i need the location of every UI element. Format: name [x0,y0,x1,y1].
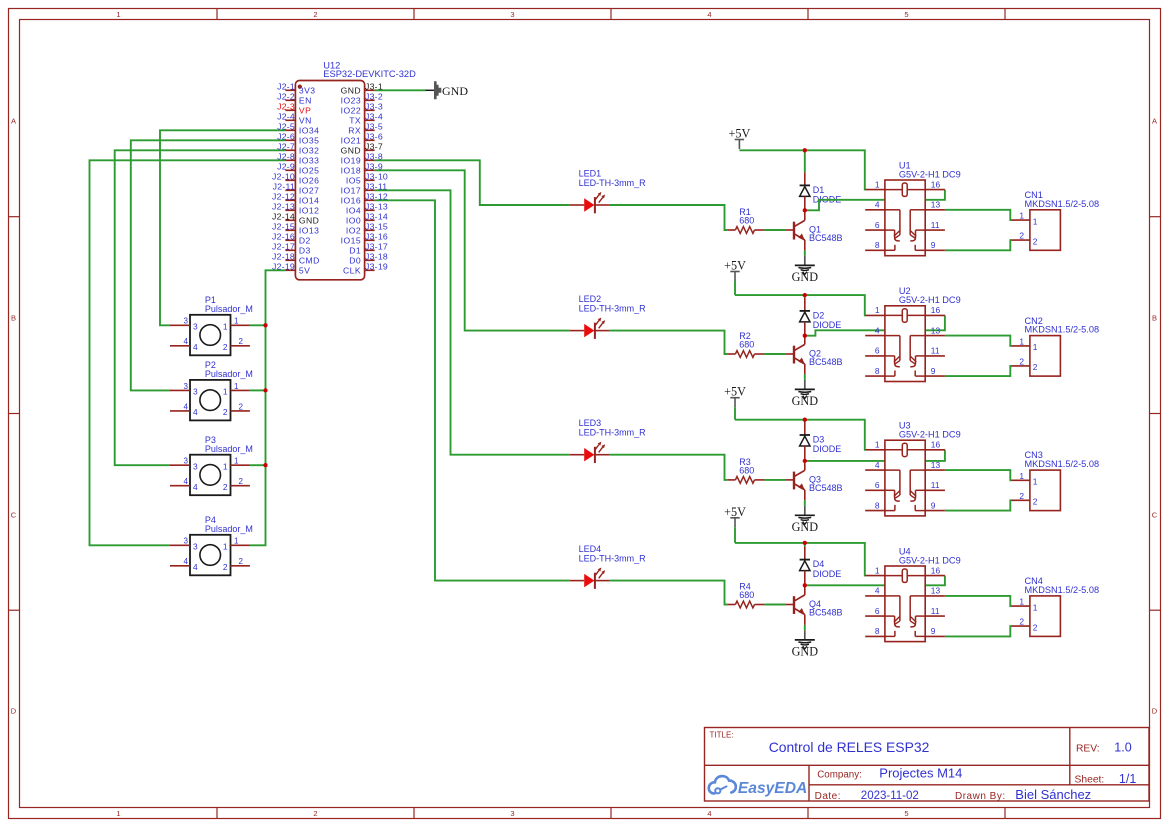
wire +5V junction to D2 cathode [804,295,806,298]
wire +5V stem (channel 3) [734,407,736,420]
svg-text:VP: VP [299,106,311,116]
wire U2 pin 9 to CN2 pin 2 [945,366,1011,376]
svg-text:5V: 5V [299,266,310,276]
svg-text:GND: GND [341,146,361,156]
EasyEDA logo [709,776,807,797]
svg-text:1: 1 [1033,477,1038,487]
U12 left pin 9 (J2-9 / IO25) [277,162,319,176]
wire J3-9 to LED2 anode [375,170,570,330]
svg-text:A: A [11,117,16,126]
svg-text:LED-TH-3mm_R: LED-TH-3mm_R [579,553,647,563]
U12 left pin 13 (J2-13 / IO12) [272,202,319,216]
svg-text:3: 3 [193,461,198,471]
svg-text:LED-TH-3mm_R: LED-TH-3mm_R [579,303,647,313]
svg-text:MKDSN1.5/2-5.08: MKDSN1.5/2-5.08 [1025,459,1100,469]
svg-text:GND: GND [299,216,319,226]
svg-text:8: 8 [875,366,880,376]
svg-text:1: 1 [234,537,239,546]
svg-text:Biel Sánchez: Biel Sánchez [1015,787,1091,802]
svg-text:680: 680 [739,340,754,350]
svg-text:Control de RELES ESP32: Control de RELES ESP32 [769,739,930,755]
svg-text:IO14: IO14 [299,196,319,206]
junction D3 anode / Q3 collector / U3 pin 16 net [803,459,807,463]
svg-text:J2-16: J2-16 [272,232,295,242]
wire U3 pin 13 to CN3 pin 1 [945,470,1011,480]
svg-text:J3-14: J3-14 [365,212,388,222]
svg-text:1: 1 [234,317,239,326]
wire +5V stem (channel 4) [734,527,736,543]
svg-text:DIODE: DIODE [813,444,842,454]
svg-text:4: 4 [193,342,198,352]
svg-text:4: 4 [875,586,880,596]
svg-text:2: 2 [1019,617,1024,627]
svg-text:LED1: LED1 [579,168,602,178]
svg-text:IO33: IO33 [299,156,319,166]
wire J3-8 to LED1 anode [375,160,570,205]
svg-text:4: 4 [875,325,880,335]
wire J3-12 to LED4 anode [375,200,570,580]
wire +5V rail to relay U3 pin 1 [735,420,865,450]
wire U1 pin 13 to CN1 pin 1 [945,210,1011,220]
svg-text:LED2: LED2 [579,294,602,304]
svg-text:J2-9: J2-9 [277,162,295,172]
U12 left pin 15 (J2-15 / IO13) [272,222,319,236]
svg-text:2: 2 [223,482,228,492]
junction D2 anode / Q2 collector / U2 pin 16 net [803,334,807,338]
U12 right pin 10 (J3-10 / IO5) [346,172,388,186]
svg-text:J2-15: J2-15 [272,222,295,232]
LED4 LED-TH-3mm_R [570,544,646,589]
wire +5V junction to D1 cathode [804,150,806,172]
U12 right pin 8 (J3-8 / IO19) [341,152,383,166]
wire Q3 emitter to ground [804,500,806,505]
svg-text:GND: GND [792,520,819,534]
wire LED4 cathode to R4 [610,581,728,605]
svg-text:IO34: IO34 [299,126,319,136]
svg-text:D2: D2 [813,310,825,320]
relay U1 G5V-2-H1 DC9 [865,160,960,255]
wire U4 pin 9 to CN4 pin 2 [945,626,1011,636]
U12 left pin 1 (J2-1 / 3V3) [277,82,315,96]
svg-text:2: 2 [239,337,244,346]
U12 right pin 14 (J3-14 / IO0) [346,212,388,226]
svg-text:GND: GND [792,270,819,284]
U12 right pin 12 (J3-12 / IO16) [341,192,388,206]
U12 right pin 18 (J3-18 / D0) [349,252,388,266]
U12 right pin 19 (J3-19 / CLK) [343,262,388,276]
wire R2 to Q2 base [764,353,785,355]
svg-text:LED3: LED3 [579,418,602,428]
svg-text:11: 11 [931,606,940,616]
wire U1 pin 9 to CN1 pin 2 [945,240,1011,250]
svg-text:IO23: IO23 [341,96,361,106]
svg-text:3: 3 [184,457,189,466]
U12 right pin 15 (J3-15 / IO2) [346,222,388,236]
svg-text:EN: EN [299,96,312,106]
svg-text:G5V-2-H1 DC9: G5V-2-H1 DC9 [899,430,961,440]
svg-text:CLK: CLK [343,266,361,276]
svg-text:2: 2 [223,407,228,417]
svg-text:8: 8 [875,500,880,510]
svg-text:A: A [1152,117,1157,126]
svg-text:GND: GND [792,645,819,659]
+5V power symbol (channel 4) [724,505,746,528]
svg-text:IO27: IO27 [299,186,319,196]
wire J2-6 to P2 pin 3 [131,140,286,390]
svg-text:RX: RX [348,126,361,136]
svg-text:IO5: IO5 [346,176,361,186]
U12 right pin 2 (J3-2 / IO23) [341,92,383,106]
svg-text:J3-19: J3-19 [365,262,388,272]
svg-text:3V3: 3V3 [299,86,316,96]
svg-text:D3: D3 [299,246,311,256]
svg-text:2: 2 [239,557,244,566]
svg-text:J3-16: J3-16 [365,232,388,242]
U12 left pin 7 (J2-7 / IO32) [277,142,319,156]
wire R3 to Q3 base [764,479,785,481]
svg-text:J2-2: J2-2 [277,92,295,102]
junction at P2 pin 1 [263,388,267,392]
svg-text:9: 9 [931,240,936,250]
svg-text:IO0: IO0 [346,216,361,226]
wire U4 pin 13 to CN4 pin 1 [945,596,1011,606]
svg-text:1: 1 [1019,597,1024,607]
svg-text:BC548B: BC548B [809,233,843,243]
wire Q1 emitter to ground [804,250,806,255]
diode D2 DIODE [800,298,842,336]
svg-text:16: 16 [931,440,941,450]
resistor R2 680 [727,331,764,357]
U12 left pin 17 (J2-17 / D3) [272,242,311,256]
LED2 LED-TH-3mm_R [570,294,646,339]
svg-text:D: D [1152,707,1158,716]
svg-text:IO4: IO4 [346,206,361,216]
svg-text:IO32: IO32 [299,146,319,156]
+5V power symbol (channel 1) [729,127,751,150]
svg-text:MKDSN1.5/2-5.08: MKDSN1.5/2-5.08 [1025,199,1100,209]
junction +5V rail / D2 cathode (channel 2) [803,293,807,297]
U12 left pin 18 (J2-18 / CMD) [272,252,320,266]
svg-text:J2-14: J2-14 [272,212,295,222]
wire J3-11 to LED3 anode [375,190,570,454]
svg-text:IO15: IO15 [341,236,361,246]
svg-text:4: 4 [184,477,189,486]
wire D1 anode to U1 pin 16 [805,190,945,211]
ground symbol GND (channel 3) [792,506,819,534]
svg-text:2: 2 [1019,356,1024,366]
svg-text:BC548B: BC548B [809,483,843,493]
svg-text:1: 1 [223,461,228,471]
wire R4 to Q4 base [764,604,785,606]
svg-text:Sheet:: Sheet: [1075,775,1105,786]
svg-text:3: 3 [193,542,198,552]
svg-text:9: 9 [931,366,936,376]
svg-text:2: 2 [1019,491,1024,501]
svg-text:J2-13: J2-13 [272,202,295,212]
svg-text:1: 1 [1019,211,1024,221]
svg-text:B: B [11,314,16,323]
connector CN2 MKDSN1.5/2-5.08 [1011,316,1099,376]
svg-text:1: 1 [875,440,880,450]
svg-text:4: 4 [184,337,189,346]
relay U2 G5V-2-H1 DC9 [865,286,960,381]
LED1 LED-TH-3mm_R [570,168,646,213]
U12 left pin 14 (J2-14 / GND) [272,212,319,226]
svg-text:3: 3 [510,10,514,19]
svg-text:2: 2 [223,562,228,572]
svg-text:J3-7: J3-7 [365,142,383,152]
svg-text:13: 13 [931,586,941,596]
U12 left pin 12 (J2-12 / IO14) [272,192,319,206]
wire J2-5 to P1 pin 3 [160,130,285,325]
wire +5V junction to D4 cathode [804,543,806,547]
svg-text:LED4: LED4 [579,544,602,554]
svg-text:GND: GND [792,394,819,408]
svg-text:J2-10: J2-10 [272,172,295,182]
ground symbol GND (channel 4) [792,630,819,658]
svg-text:D2: D2 [299,236,311,246]
wire J2-8 to P4 pin 3 [90,160,286,545]
svg-text:4: 4 [875,460,880,470]
U12 left pin 11 (J2-11 / IO27) [273,182,320,196]
svg-text:2: 2 [313,10,317,19]
svg-text:4: 4 [707,10,711,19]
svg-text:2: 2 [239,477,244,486]
svg-text:3: 3 [184,382,189,391]
svg-text:Projectes M14: Projectes M14 [879,766,962,781]
svg-text:16: 16 [931,565,941,575]
relay U4 G5V-2-H1 DC9 [865,546,960,641]
svg-text:4: 4 [193,407,198,417]
wire LED2 cathode to R2 [610,331,728,354]
wire bus tap to P3 pin 1 [250,464,266,466]
svg-text:3: 3 [184,537,189,546]
svg-text:1: 1 [223,387,228,397]
svg-text:1: 1 [875,305,880,315]
junction at P1 pin 1 [263,323,267,327]
svg-text:J2-17: J2-17 [272,242,295,252]
svg-text:J2-1: J2-1 [277,82,295,92]
svg-text:1: 1 [1033,216,1038,226]
svg-text:1: 1 [875,179,880,189]
U12 right pin 1 (J3-1 / GND) [341,82,383,96]
svg-text:D0: D0 [349,256,361,266]
svg-text:4: 4 [184,557,189,566]
svg-text:Pulsador_M: Pulsador_M [205,304,253,314]
svg-text:4: 4 [707,809,711,818]
wire J3-1 to GND flag [375,89,426,91]
svg-text:2023-11-02: 2023-11-02 [861,790,919,802]
svg-text:IO26: IO26 [299,176,319,186]
svg-text:1/1: 1/1 [1119,772,1136,786]
svg-text:D1: D1 [813,185,825,195]
U12 right pin 16 (J3-16 / IO15) [341,232,388,246]
svg-text:D1: D1 [349,246,361,256]
svg-text:1: 1 [875,565,880,575]
svg-text:8: 8 [875,626,880,636]
svg-text:IO12: IO12 [299,206,319,216]
svg-text:3: 3 [510,809,514,818]
wire bus tap to P1 pin 1 [250,324,266,326]
svg-text:680: 680 [739,590,754,600]
U12 right pin 5 (J3-5 / RX) [348,122,383,136]
svg-text:IO25: IO25 [299,166,319,176]
svg-text:J2-18: J2-18 [272,252,295,262]
svg-text:IO2: IO2 [346,226,361,236]
svg-text:J2-3: J2-3 [277,102,295,112]
svg-text:B: B [1152,314,1157,323]
push button P4 Pulsador_M [170,515,253,575]
svg-text:1: 1 [1019,471,1024,481]
ground symbol GND (channel 2) [792,380,819,408]
junction D4 anode / Q4 collector / U4 pin 16 net [803,583,807,587]
push button P3 Pulsador_M [170,435,253,495]
wire Q4 emitter to ground [804,625,806,630]
svg-text:1: 1 [234,457,239,466]
svg-text:+5V: +5V [724,259,746,273]
junction at P3 pin 1 [263,463,267,467]
svg-text:TITLE:: TITLE: [710,730,734,739]
svg-text:J2-4: J2-4 [277,112,295,122]
resistor R1 680 [727,207,764,233]
resistor R4 680 [727,582,764,608]
svg-text:1: 1 [1033,602,1038,612]
svg-text:2: 2 [1033,362,1038,372]
svg-text:IO22: IO22 [341,106,361,116]
svg-text:5: 5 [904,809,908,818]
svg-text:16: 16 [931,305,941,315]
svg-text:IO16: IO16 [341,196,361,206]
svg-text:3: 3 [184,317,189,326]
wire U3 pin 9 to CN3 pin 2 [945,500,1011,510]
svg-text:J3-15: J3-15 [365,222,388,232]
svg-text:13: 13 [931,325,941,335]
svg-text:G5V-2-H1 DC9: G5V-2-H1 DC9 [899,295,961,305]
svg-text:3: 3 [193,322,198,332]
wire +5V junction to D3 cathode [804,420,806,422]
wire Q2 emitter to ground [804,374,806,379]
LED3 LED-TH-3mm_R [570,418,646,463]
svg-text:+5V: +5V [724,385,746,399]
svg-text:J3-13: J3-13 [365,202,388,212]
IC U12 ESP32-DEVKITC-32D module body [295,61,416,280]
svg-text:Pulsador_M: Pulsador_M [205,524,253,534]
svg-text:J3-10: J3-10 [365,172,388,182]
diode D4 DIODE [800,547,842,586]
U12 left pin 10 (J2-10 / IO26) [272,172,319,186]
wire +5V rail to relay U2 pin 1 [735,295,865,315]
svg-text:2: 2 [239,402,244,411]
svg-text:2: 2 [1033,622,1038,632]
diode D1 DIODE [800,172,842,210]
relay U3 G5V-2-H1 DC9 [865,421,960,516]
svg-text:2: 2 [1033,497,1038,507]
svg-text:C: C [11,511,17,520]
U12 right pin 4 (J3-4 / TX) [349,112,383,126]
svg-text:LED-TH-3mm_R: LED-TH-3mm_R [579,428,647,438]
svg-text:J3-4: J3-4 [365,112,383,122]
U12 right pin 3 (J3-3 / IO22) [341,102,383,116]
ground GND net flag [426,81,469,99]
svg-text:16: 16 [931,179,941,189]
U12 right pin 11 (J3-11 / IO17) [341,182,388,196]
svg-text:680: 680 [739,466,754,476]
svg-text:G5V-2-H1 DC9: G5V-2-H1 DC9 [899,169,961,179]
svg-text:IO18: IO18 [341,166,361,176]
junction +5V rail / D1 cathode (channel 1) [803,148,807,152]
U12 right pin 6 (J3-6 / IO21) [341,132,383,146]
wire LED3 cathode to R3 [610,455,728,480]
svg-text:2: 2 [1019,231,1024,241]
U12 left pin 16 (J2-16 / D2) [272,232,311,246]
svg-text:6: 6 [875,346,880,356]
svg-text:1: 1 [223,542,228,552]
U12 left pin 6 (J2-6 / IO35) [277,132,319,146]
svg-text:2: 2 [313,809,317,818]
svg-text:J3-5: J3-5 [365,122,383,132]
svg-text:Company:: Company: [817,769,862,780]
U12 right pin 13 (J3-13 / IO4) [346,202,388,216]
svg-text:Pulsador_M: Pulsador_M [205,369,253,379]
svg-text:IO35: IO35 [299,136,319,146]
svg-text:EasyEDA: EasyEDA [738,780,807,797]
svg-text:4: 4 [193,562,198,572]
transistor Q2 BC548B [785,336,842,375]
svg-text:3: 3 [193,387,198,397]
svg-text:REV:: REV: [1076,744,1100,755]
push button P2 Pulsador_M [170,360,253,420]
svg-text:8: 8 [875,240,880,250]
svg-text:DIODE: DIODE [813,320,842,330]
svg-text:MKDSN1.5/2-5.08: MKDSN1.5/2-5.08 [1025,585,1100,595]
svg-text:Drawn By:: Drawn By: [955,791,1006,802]
svg-text:D: D [11,707,17,716]
wire bus tap to P2 pin 1 [250,389,266,391]
diode D3 DIODE [800,422,842,461]
U12 left pin 4 (J2-4 / VN) [277,112,312,126]
svg-text:J3-18: J3-18 [365,252,388,262]
svg-text:1: 1 [1019,336,1024,346]
wire +5V rail to relay U1 pin 1 [739,150,865,189]
U12 right pin 9 (J3-9 / IO18) [341,162,383,176]
svg-text:DIODE: DIODE [813,569,842,579]
svg-text:BC548B: BC548B [809,357,843,367]
junction +5V rail / D3 cathode (channel 3) [803,418,807,422]
svg-text:VN: VN [299,116,312,126]
wire D3 anode to U3 pin 16 [805,450,945,461]
wire U2 pin 13 to CN2 pin 1 [945,336,1011,346]
svg-text:9: 9 [931,500,936,510]
svg-text:4: 4 [193,482,198,492]
connector CN3 MKDSN1.5/2-5.08 [1011,450,1099,510]
svg-text:4: 4 [875,200,880,210]
svg-text:Pulsador_M: Pulsador_M [205,444,253,454]
svg-text:TX: TX [349,116,361,126]
U12 left pin 3 (J2-3 / VP) [277,102,311,116]
svg-text:Date:: Date: [815,791,841,802]
svg-text:IO13: IO13 [299,226,319,236]
svg-text:CMD: CMD [299,256,320,266]
U12 left pin 5 (J2-5 / IO34) [277,122,319,136]
junction D1 anode / Q1 collector / U1 pin 16 net [803,208,807,212]
svg-text:2: 2 [223,342,228,352]
U12 right pin 7 (J3-7 / GND) [341,142,383,156]
U12 right pin 17 (J3-17 / D1) [349,242,388,256]
svg-text:J3-2: J3-2 [365,92,383,102]
svg-text:MKDSN1.5/2-5.08: MKDSN1.5/2-5.08 [1025,325,1100,335]
svg-text:IO17: IO17 [341,186,361,196]
svg-text:ESP32-DEVKITC-32D: ESP32-DEVKITC-32D [323,69,416,79]
